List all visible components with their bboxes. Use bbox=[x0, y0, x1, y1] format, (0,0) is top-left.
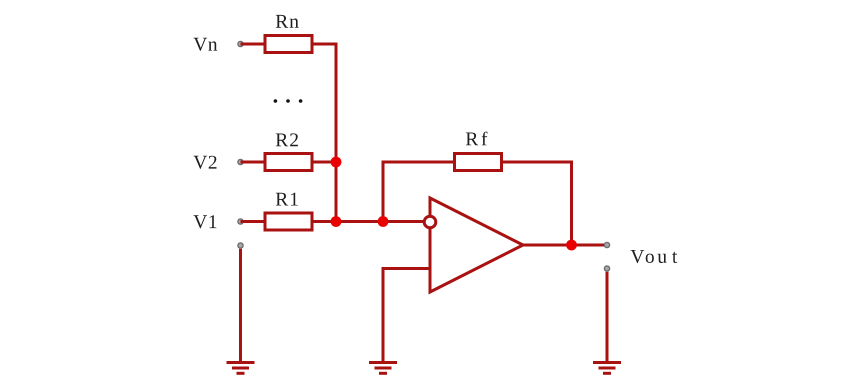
terminal Vout bbox=[604, 242, 609, 247]
junction node at feedback / inverting input bbox=[378, 216, 389, 227]
wire V1 lower terminal to ground bbox=[239, 249, 242, 362]
label R1 bbox=[276, 193, 298, 206]
wire R2 to bus node bbox=[314, 161, 337, 164]
terminal Vn bbox=[238, 41, 243, 46]
terminal V1 bbox=[238, 219, 243, 224]
label R2 bbox=[276, 133, 298, 146]
ground (non-inverting input) bbox=[369, 363, 397, 374]
label Vn bbox=[194, 38, 218, 51]
resistor R1 bbox=[265, 213, 312, 230]
terminal V2 bbox=[238, 159, 243, 164]
junction node at output bbox=[566, 240, 577, 251]
label Rf bbox=[466, 132, 488, 146]
junction node at bus / R1 bbox=[331, 216, 342, 227]
wire Vout lower terminal to ground bbox=[606, 272, 609, 362]
label Vout bbox=[631, 250, 678, 263]
wire R1 to inverting input bbox=[314, 220, 424, 223]
terminal V1 return bbox=[238, 243, 243, 248]
wire non-inverting input to ground bbox=[383, 269, 430, 363]
label V1 bbox=[194, 215, 217, 228]
wire feedback left: node to Rf bbox=[383, 162, 455, 222]
op-amp U1 triangle bbox=[430, 198, 523, 292]
resistor Rf bbox=[455, 154, 502, 171]
resistor R2 bbox=[265, 154, 312, 171]
label Rn bbox=[276, 15, 299, 28]
wire feedback right: Rf to output node bbox=[500, 162, 572, 245]
wire Vn terminal to Rn bbox=[241, 43, 264, 46]
wire Rn to summing bus (corner) bbox=[314, 44, 337, 222]
terminal Vout return bbox=[604, 266, 609, 271]
wire V2 terminal to R2 bbox=[241, 161, 264, 164]
ellipsis dots between Rn and R2 bbox=[274, 99, 303, 103]
resistor Rn bbox=[265, 36, 312, 53]
op-amp inverting input bubble bbox=[424, 216, 436, 228]
ground (below Vout) bbox=[593, 363, 621, 374]
wire op-amp output to Vout terminal bbox=[523, 244, 604, 247]
junction node at bus / R2 bbox=[331, 157, 342, 168]
label V2 bbox=[194, 156, 217, 169]
wire V1 terminal to R1 bbox=[241, 220, 264, 223]
ground (below V1 source) bbox=[227, 363, 255, 374]
